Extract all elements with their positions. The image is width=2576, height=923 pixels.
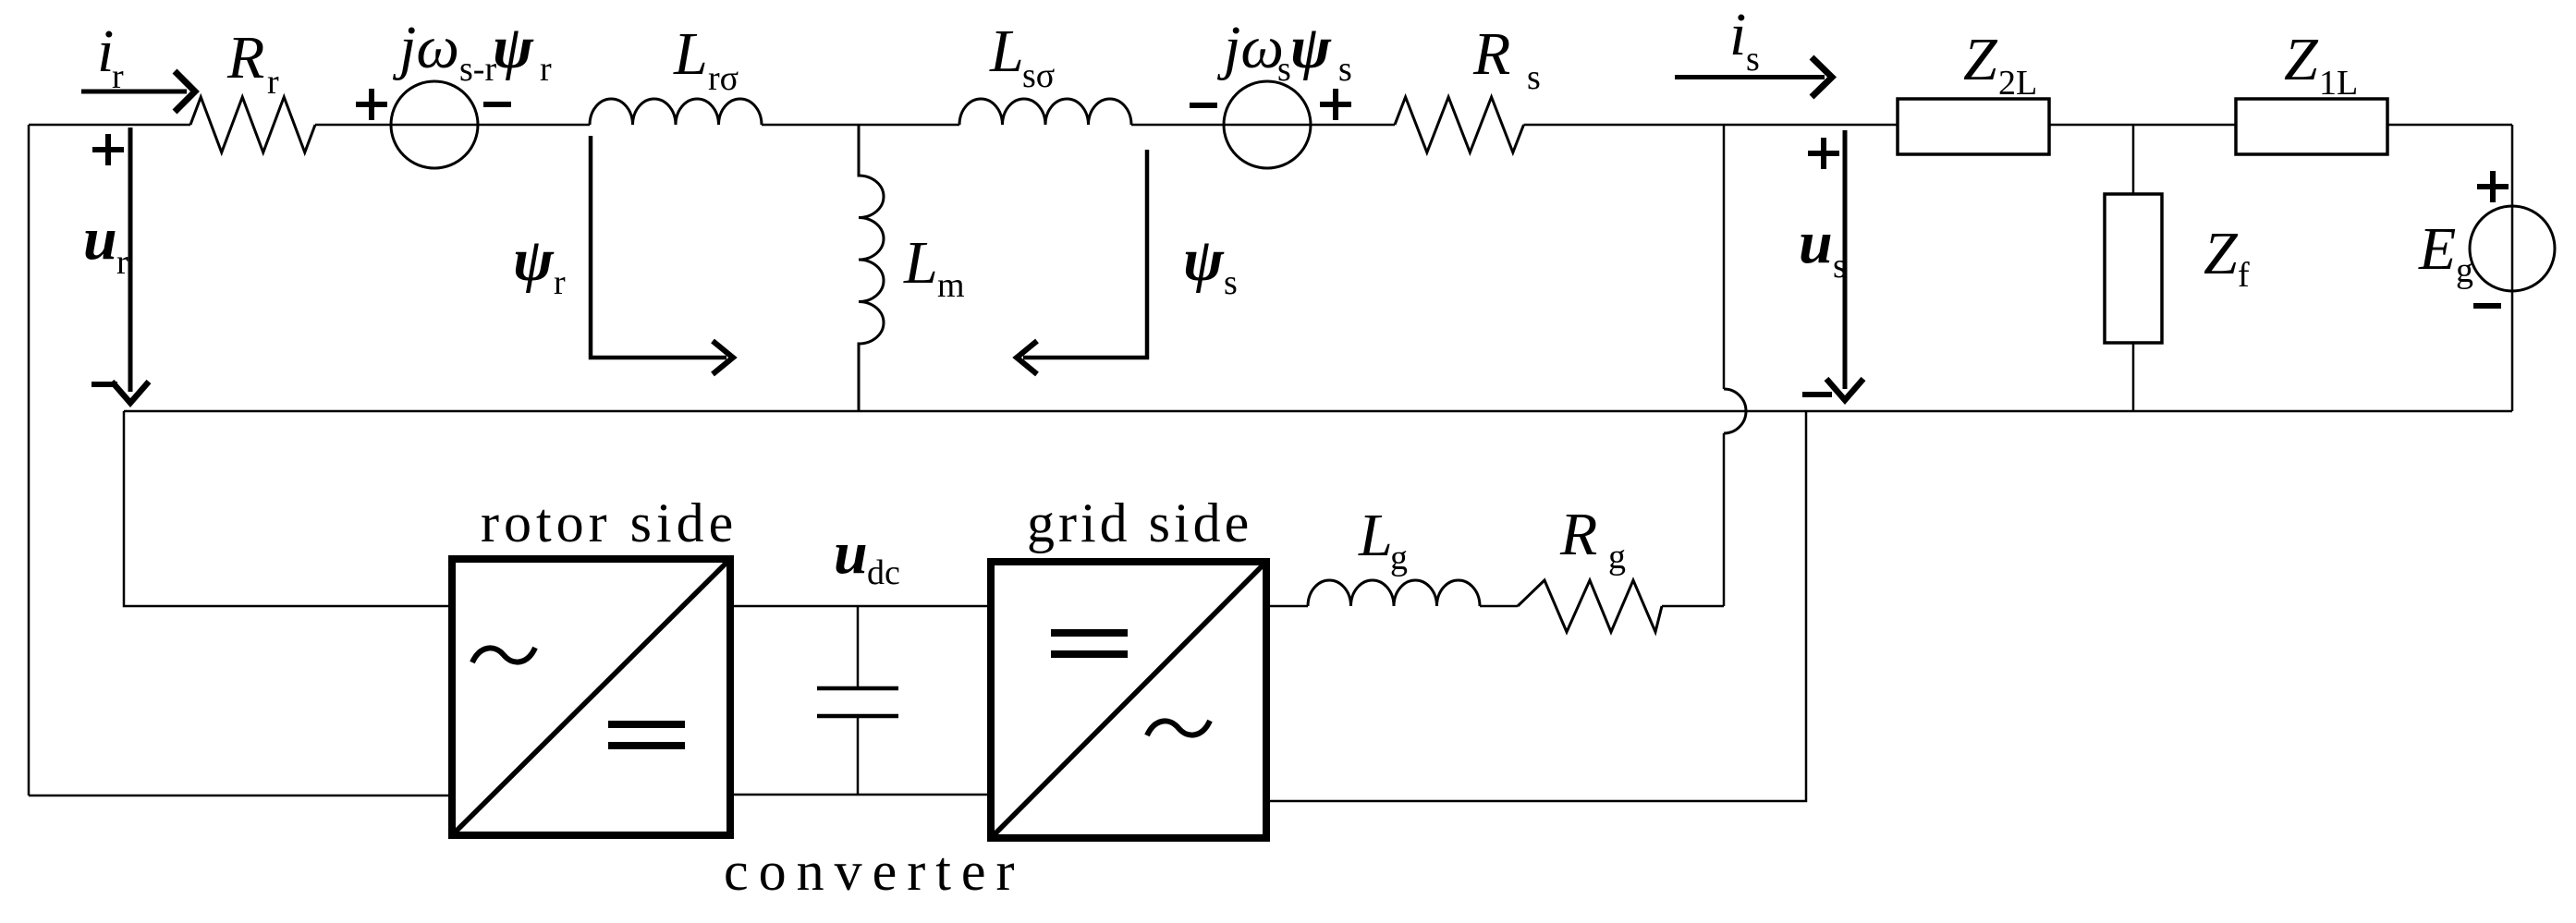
svg-text:grid side: grid side [1027,492,1252,553]
flux bracket psi_s [1023,150,1147,358]
svg-text:s: s [1746,40,1760,79]
svg-text:L: L [903,229,938,297]
svg-text:jω: jω [392,14,459,81]
wire L_g to R_g [1480,605,1518,608]
wire stator junction vertical upper [1723,125,1726,389]
wire top-left horizontal [29,124,190,127]
svg-text:E: E [2418,215,2456,283]
inductor L_m [859,125,884,411]
svg-text:m: m [937,266,965,305]
wire R_s to Z_2L [1524,124,1898,127]
plus V2 [1320,89,1351,120]
svg-text:s: s [1527,58,1541,97]
wire L_ssigma to R_s [1131,124,1395,127]
svg-text:r: r [540,50,552,89]
plus u_s [1808,138,1839,169]
svg-text:u: u [83,205,117,273]
arrow i_r [81,90,187,94]
wire dc link bottom [730,794,991,796]
svg-text:g: g [2456,251,2473,290]
svg-text:g: g [1608,538,1626,577]
svg-text:Z: Z [2284,26,2319,93]
wire bottom rail [124,410,2512,413]
minus V2 [1190,103,1217,108]
wire dc link top [730,605,991,608]
svg-text:R: R [1559,501,1597,568]
arrow u_r [128,128,133,392]
wire left vertical [28,125,31,795]
arrow i_s [1675,75,1825,79]
capacitor C_dc stubs [857,606,860,795]
rotor-side diagonal [456,563,726,832]
svg-text:s: s [1277,50,1291,89]
minus u_r [92,382,117,387]
resistor R_g [1518,580,1662,632]
inductor L_ssigma [959,99,1131,125]
plus E_g [2477,171,2509,202]
minus E_g [2473,303,2501,309]
svg-text:r: r [554,263,566,302]
flux bracket psi_r [591,136,726,358]
svg-text:s: s [1338,50,1352,89]
svg-text:rotor side: rotor side [481,492,738,553]
svg-text:L: L [1358,502,1393,569]
wire Z_2L to Z_1L [2049,124,2236,127]
svg-text:L: L [673,20,708,88]
rotor-side DC bars [608,724,685,746]
svg-text:r: r [112,57,124,96]
minus u_s [1802,392,1832,397]
svg-text:s-r: s-r [459,50,496,89]
minus V1 [483,102,511,107]
svg-text:i: i [1729,1,1746,68]
svg-text:s: s [1224,263,1238,302]
plus V1 [356,89,387,120]
svg-text:f: f [2238,256,2250,295]
rotor-side AC tilde [472,648,535,662]
svg-text:g: g [1390,539,1408,577]
converter rotor-side box [452,559,730,835]
svg-text:s: s [1833,247,1847,285]
impedance Z_2L [1898,99,2049,154]
svg-text:jω: jω [1216,14,1284,81]
impedance Z_1L [2236,99,2387,154]
svg-text:ψ: ψ [513,226,555,294]
svg-text:u: u [834,519,868,587]
resistor R_s [1395,97,1524,152]
svg-text:u: u [1799,209,1833,276]
svg-text:R: R [226,24,264,91]
grid-side DC bars [1051,633,1128,654]
crossover hop over rail [1724,389,1746,433]
grid-side diagonal [995,565,1263,834]
svg-text:r: r [116,243,128,282]
wire grid converter to L_g [1266,605,1308,608]
svg-text:2L: 2L [1998,64,2037,103]
wire right vertical [2511,125,2514,411]
source V2 jw_s psi_s [1224,81,1311,168]
svg-text:converter: converter [724,841,1025,902]
wire L_rsigma to L_ssigma [762,124,959,127]
svg-text:Z: Z [1963,26,1998,93]
svg-text:r: r [267,63,279,102]
converter grid-side box [991,562,1266,838]
grid-side AC tilde [1147,721,1210,735]
svg-text:ψ: ψ [493,14,534,81]
svg-text:Z: Z [2204,220,2239,287]
svg-text:dc: dc [867,553,900,592]
svg-text:rσ: rσ [708,59,739,98]
inductor L_rsigma [590,99,762,125]
resistor R_r [190,97,315,152]
capacitor C_dc plates [817,688,898,716]
plus u_r [92,134,124,165]
wire R_g to riser [1662,605,1724,608]
arrow u_s [1843,130,1848,389]
impedance Z_f [2132,125,2135,411]
inductor L_g [1308,580,1480,606]
source E_g [2470,206,2555,291]
svg-text:sσ: sσ [1022,56,1055,95]
wire rail corner down to rotor converter [124,411,452,606]
wire rotor converter bottom input [29,795,452,797]
wire grid converter bottom output [1266,411,1806,801]
svg-text:L: L [989,18,1024,85]
svg-text:R: R [1472,20,1510,88]
svg-text:ψ: ψ [1290,14,1332,81]
wire R_r to L_r [315,124,590,127]
source V1 jw(s-r)psi_r [391,81,478,168]
svg-text:ψ: ψ [1183,226,1225,294]
svg-text:1L: 1L [2319,64,2358,103]
wire stator junction vertical lower [1723,433,1726,606]
wire Z_1L to right corner [2387,124,2512,127]
